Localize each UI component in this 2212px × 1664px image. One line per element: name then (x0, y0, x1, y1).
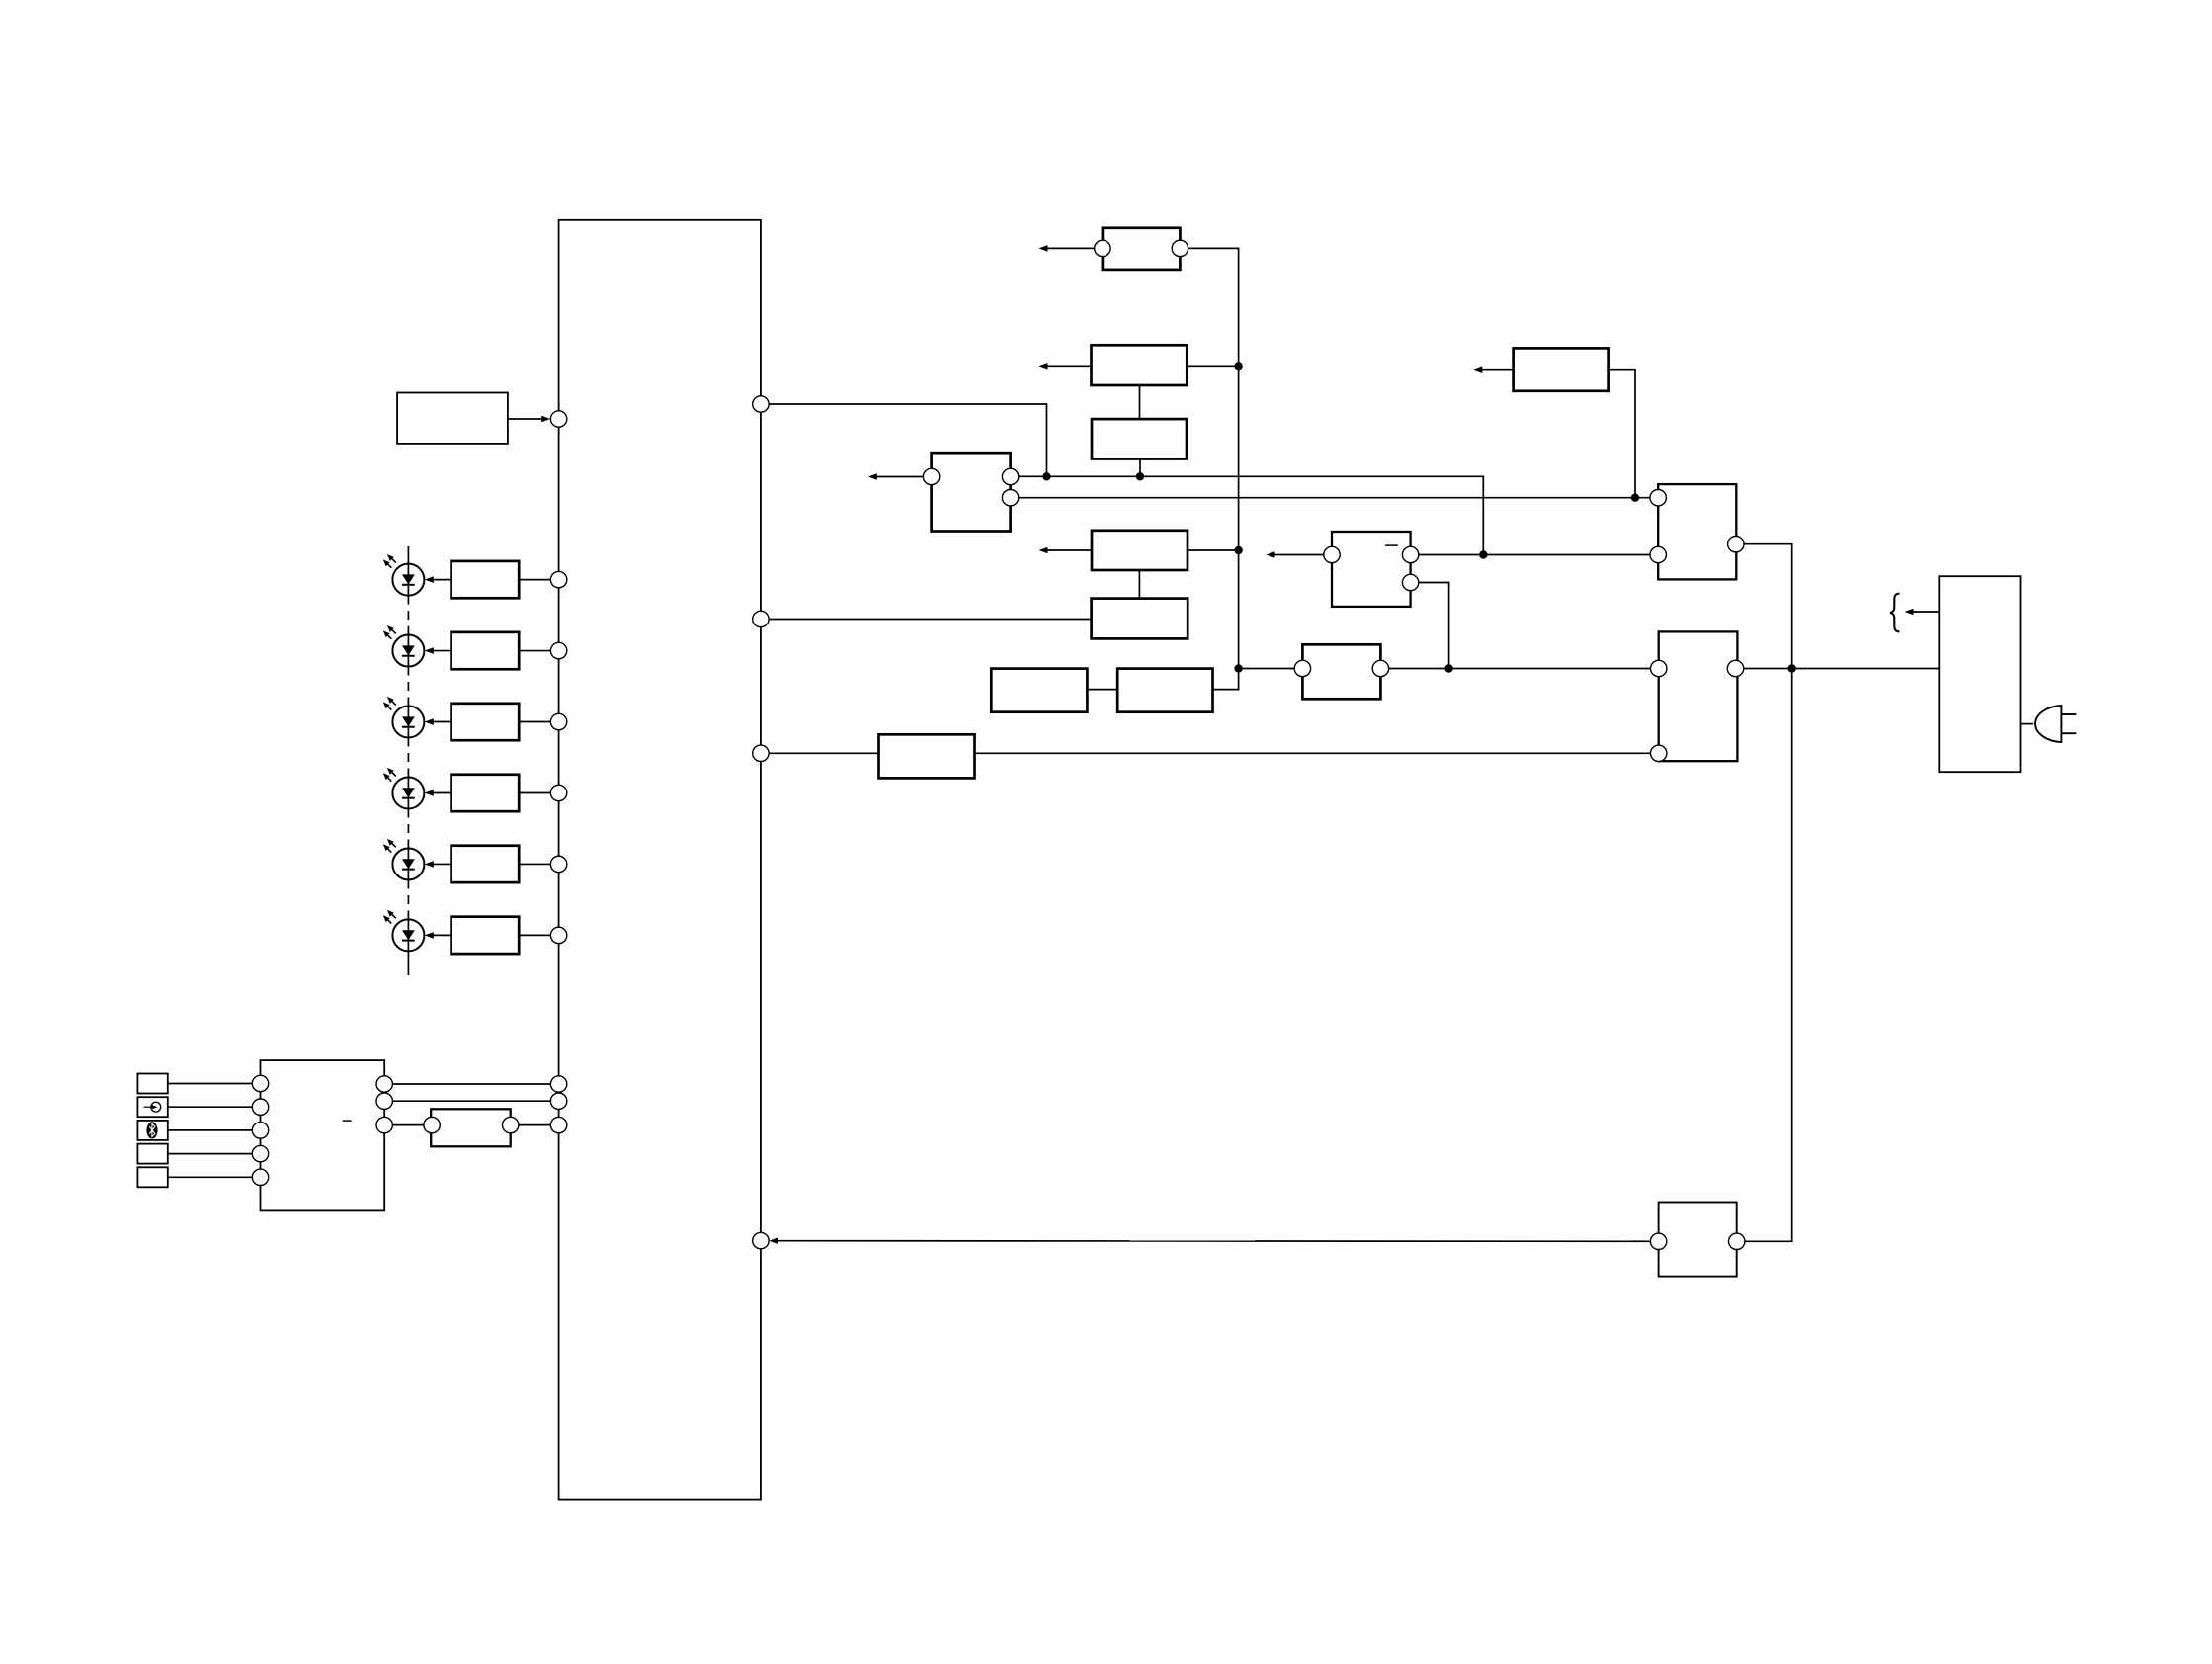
wire (425, 861, 451, 868)
bluetooth module block (261, 1060, 385, 1210)
block bB (1117, 669, 1212, 712)
junction (1234, 664, 1242, 672)
wire (1039, 245, 1095, 252)
pin (376, 1076, 392, 1092)
power input icon (144, 1102, 161, 1112)
wire (975, 752, 1651, 754)
net B wire (1019, 497, 1650, 499)
pin (550, 642, 566, 658)
wire (519, 650, 550, 652)
block b6 (1092, 599, 1188, 639)
input source box 3 (137, 1121, 167, 1140)
block b2 (1092, 345, 1188, 385)
junction (1444, 664, 1452, 672)
wire (508, 416, 550, 423)
pin (252, 1099, 268, 1115)
pin (1727, 660, 1743, 676)
wire (1239, 668, 1295, 670)
pin (550, 1076, 566, 1092)
amp block a1 (1332, 532, 1411, 607)
wire (1905, 609, 1940, 616)
wire (425, 647, 451, 654)
pin (550, 713, 566, 729)
pin (1172, 240, 1188, 256)
resistor R3 (451, 704, 520, 740)
wire (2021, 723, 2034, 725)
wire (168, 1106, 253, 1108)
pin (1728, 537, 1744, 552)
pin (753, 1232, 769, 1248)
wire (769, 619, 1092, 621)
wire (425, 718, 451, 725)
resistor R2 (451, 632, 520, 669)
wire (168, 1129, 253, 1131)
resistor R5 (451, 846, 520, 882)
pin (1650, 490, 1666, 506)
LED D6 (383, 910, 425, 952)
pin (550, 785, 566, 800)
wire (1187, 365, 1238, 367)
junction (1631, 494, 1639, 502)
pin (252, 1075, 268, 1091)
pin (1294, 660, 1310, 676)
junction (1479, 550, 1487, 558)
LED D2 (383, 625, 425, 667)
feedback block f1 (1659, 1203, 1737, 1277)
wire (1419, 583, 1449, 669)
resistor R1 (451, 561, 520, 598)
pin (753, 611, 769, 626)
wire (519, 721, 550, 723)
junction (1788, 664, 1796, 672)
junction (1234, 362, 1242, 370)
pin (550, 571, 566, 587)
pin (550, 856, 566, 872)
wire (392, 1083, 550, 1085)
bus wire (1188, 248, 1239, 689)
wire (1039, 547, 1093, 554)
pin (376, 1093, 392, 1109)
wire (868, 473, 924, 480)
wire (769, 404, 1046, 476)
pin (1002, 468, 1018, 484)
net C wire (1419, 554, 1650, 556)
resistor block r-top (1514, 348, 1609, 390)
wire (425, 932, 451, 939)
power supply block (1939, 576, 2020, 772)
pin (1095, 240, 1110, 256)
wire (519, 791, 550, 793)
block b7 (1302, 644, 1380, 699)
block b5 (1092, 531, 1188, 570)
wire (769, 1237, 1650, 1244)
wire (1744, 544, 1792, 669)
pin (1324, 546, 1340, 562)
wire (519, 934, 550, 936)
wire (392, 1124, 424, 1126)
brace (1890, 594, 1900, 632)
LED D4 (383, 768, 425, 809)
pin (252, 1123, 268, 1138)
wire (519, 863, 550, 865)
resistor block rb (879, 734, 975, 778)
pin (550, 411, 566, 427)
block b3 (1092, 419, 1187, 458)
LED D3 (383, 697, 425, 738)
interface block b4 (932, 453, 1011, 531)
pin (1372, 660, 1388, 676)
wire (168, 1176, 253, 1178)
junction (1234, 546, 1242, 554)
pin (252, 1145, 268, 1161)
label dash (343, 1120, 352, 1122)
pin (1651, 660, 1667, 676)
pin (1402, 574, 1418, 590)
LED D1 (383, 554, 425, 596)
power block p1 (1659, 631, 1738, 761)
resistor R4 (451, 775, 520, 811)
input source box 4 (137, 1144, 167, 1164)
pin (424, 1117, 440, 1132)
filter component box (431, 1109, 511, 1146)
wire (519, 1124, 551, 1126)
pin (923, 468, 939, 484)
pin (1002, 490, 1018, 506)
top-left block (power key) (397, 393, 508, 444)
wire (425, 790, 451, 796)
wire (1139, 459, 1141, 477)
junction (1136, 472, 1144, 480)
wire (168, 1083, 253, 1085)
muting block b1 (1103, 228, 1181, 270)
wire (1609, 370, 1635, 498)
pin (1650, 546, 1666, 562)
power amp block u1 (1658, 484, 1736, 579)
pin (550, 1093, 566, 1109)
wire (519, 579, 550, 581)
wire (1744, 668, 1940, 670)
wire (769, 752, 878, 754)
pin (1651, 745, 1667, 761)
input source box 5 (137, 1167, 167, 1187)
pin (550, 927, 566, 943)
wire (1745, 669, 1792, 1242)
pin (1402, 546, 1418, 562)
wire (1473, 366, 1513, 373)
pin (376, 1117, 392, 1132)
wire (1267, 551, 1324, 558)
main system IC block (central) (559, 220, 761, 1500)
pin (1650, 1233, 1666, 1249)
wire (1389, 668, 1651, 670)
block bA (991, 669, 1087, 712)
wire (392, 1100, 550, 1102)
pin (550, 1117, 566, 1132)
net A wire (1019, 476, 1484, 554)
resistor R6 (451, 917, 520, 954)
wire (1138, 570, 1140, 599)
pin (753, 396, 769, 412)
pin (252, 1169, 268, 1185)
label dash (1385, 544, 1398, 546)
wire (1139, 385, 1141, 419)
wire (168, 1153, 253, 1155)
LED string wire (407, 546, 409, 975)
wire (1087, 689, 1117, 691)
bluetooth icon (146, 1122, 157, 1138)
input source box 2 (137, 1097, 167, 1117)
pin (1729, 1233, 1745, 1249)
pin (503, 1117, 519, 1132)
ac plug (2035, 706, 2076, 742)
input source box 1 (137, 1074, 167, 1094)
pin (753, 745, 769, 761)
wire (1039, 363, 1092, 370)
wire (1188, 549, 1239, 551)
wire (425, 576, 451, 583)
LED D5 (383, 839, 425, 880)
junction (1042, 472, 1050, 480)
